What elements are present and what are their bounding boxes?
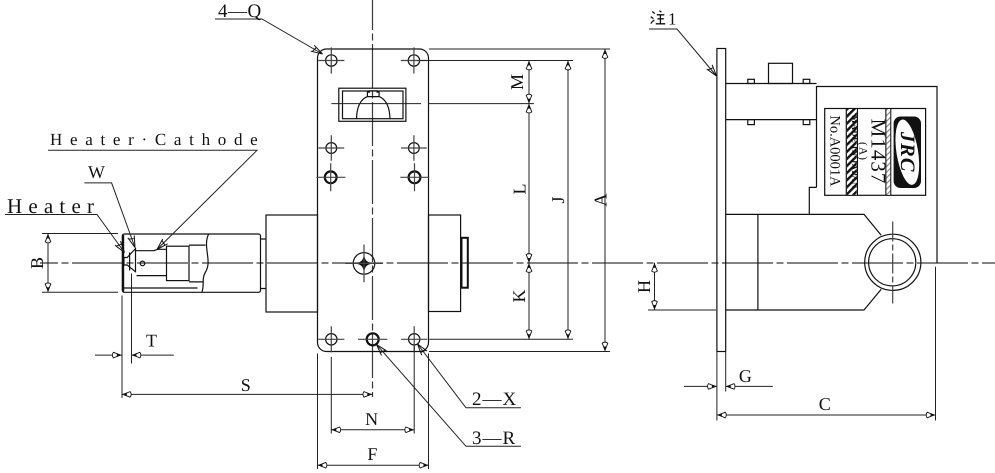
leader arrowheads	[311, 45, 324, 57]
antenna dome inner circle	[869, 239, 916, 286]
dim N ext and line	[331, 346, 414, 434]
inner electrode block	[167, 246, 190, 280]
corner hole top-left	[326, 55, 337, 66]
right flange	[429, 215, 461, 312]
callout labels with leaders	[5, 19, 717, 446]
svg-text:A: A	[591, 194, 611, 207]
dim A line	[604, 49, 606, 352]
dim S line	[122, 393, 372, 395]
mid hole row2 right (bold)	[409, 171, 421, 183]
leader Heater	[5, 215, 125, 253]
dim G ext and lines	[684, 352, 773, 392]
svg-text:Heater·Cathode: Heater·Cathode	[50, 130, 265, 149]
heater dot	[140, 261, 145, 266]
leader 2-X	[418, 344, 522, 408]
svg-text:C: C	[819, 394, 831, 414]
window outer frame	[339, 88, 406, 121]
svg-text:S: S	[241, 375, 251, 395]
arrows dim J	[565, 61, 571, 70]
corner hole bottom-right	[409, 334, 420, 345]
corner hole top-right	[408, 55, 419, 66]
svg-text:JRC: JRC	[896, 131, 918, 173]
window inner frame	[343, 91, 404, 119]
svg-text:G: G	[739, 366, 752, 386]
svg-text:F: F	[367, 444, 377, 464]
leader 4-Q	[215, 19, 323, 54]
svg-text:2—X: 2—X	[472, 389, 517, 410]
svg-text:T: T	[146, 331, 157, 351]
arrows dim K	[526, 263, 532, 272]
dim H ext and line	[648, 263, 716, 310]
yoke tab mid-left	[748, 120, 755, 125]
svg-text:W: W	[88, 162, 105, 182]
arrows dim G	[708, 384, 717, 390]
svg-text:N: N	[365, 409, 378, 429]
horizontal centerline (main axis)	[40, 262, 995, 264]
ext lines right of plate	[331, 49, 610, 352]
arrows dim N	[331, 427, 340, 433]
center screw circle	[353, 253, 375, 275]
corner hole bottom-left	[326, 334, 337, 345]
arrows dim S	[122, 392, 131, 398]
lower cylinder divider	[757, 214, 759, 310]
mounting plate (front view)	[318, 49, 429, 352]
arrows dim H	[652, 263, 658, 272]
dim L line	[528, 104, 530, 263]
stem cylinder	[122, 234, 260, 292]
body block outline	[809, 87, 937, 263]
yoke inner line	[726, 119, 817, 121]
arrows dim C	[717, 412, 726, 418]
yoke tab top-left	[748, 79, 755, 83]
arrows dim A	[602, 49, 608, 58]
dim F ext and line	[318, 354, 429, 470]
arrows dim M	[526, 61, 532, 70]
JRC logo	[891, 117, 923, 189]
cathode cap line	[129, 253, 131, 271]
svg-text:M: M	[507, 74, 527, 90]
mid hole row1 right	[409, 143, 420, 154]
stem left cap edge (thick)	[122, 235, 124, 292]
arrows dim B	[45, 234, 51, 243]
bottom center hole (bold)	[367, 333, 379, 345]
nameplate label border	[825, 109, 926, 196]
left flange	[266, 215, 318, 312]
stem inner sleeve bottom line	[123, 287, 197, 289]
arrows dim T	[112, 352, 121, 358]
inner electrode block 2	[189, 245, 206, 282]
cathode cone	[124, 248, 136, 273]
side plate (edge-on)	[717, 49, 726, 352]
antenna plate	[462, 238, 468, 288]
center screw crosshair	[345, 245, 383, 283]
leader Heater-Cathode	[48, 150, 257, 249]
yoke tab top-right	[803, 79, 810, 83]
svg-text:3—R: 3—R	[472, 428, 516, 449]
dim M line	[528, 61, 530, 104]
arrows dim F	[318, 462, 327, 468]
leader W	[84, 183, 135, 248]
lower cylinder	[726, 214, 882, 310]
dome (cathode insulator)	[357, 97, 391, 119]
yoke tab mid-right	[803, 120, 810, 125]
svg-text:(A): (A)	[857, 142, 869, 161]
leader 3-R	[377, 345, 522, 447]
dim J line	[567, 61, 569, 340]
vertical centerline of plate	[372, 0, 374, 397]
svg-text:H: H	[634, 280, 654, 293]
svg-text:J: J	[548, 196, 568, 203]
svg-text:M1437: M1437	[867, 119, 891, 185]
yoke top edge	[726, 83, 817, 85]
dome nipple	[367, 91, 379, 97]
svg-text:No.A0001A: No.A0001A	[827, 115, 843, 187]
dim B ext and line	[42, 234, 118, 293]
mid hole row1 left	[326, 143, 337, 154]
dimension letters	[27, 74, 831, 464]
svg-text:4—Q: 4—Q	[218, 1, 262, 22]
antenna dome vertical centerline	[892, 222, 894, 304]
hatched band MADE IN JAPAN	[847, 109, 890, 195]
top terminal box	[769, 63, 793, 83]
callout texts	[218, 1, 517, 449]
nameplate column lines	[846, 109, 890, 196]
heater support	[136, 249, 167, 275]
svg-text:Heater: Heater	[7, 194, 100, 218]
svg-text:L: L	[510, 184, 530, 195]
leader note1	[649, 29, 717, 76]
arrows dim L	[526, 104, 532, 113]
stem break wavy line	[202, 234, 209, 292]
center screw phillips cross	[357, 256, 372, 270]
note1 kanji (drawn strokes) + 1	[651, 11, 665, 24]
antenna dome outer circle	[865, 234, 921, 290]
dim C ext and line	[717, 267, 936, 421]
mid hole row2 left (bold)	[325, 171, 337, 183]
dim T ext and line	[95, 274, 174, 399]
svg-text:K: K	[509, 290, 529, 303]
svg-text:1: 1	[668, 10, 677, 29]
neck between stem and flange	[261, 239, 267, 289]
dim K line	[528, 263, 530, 339]
svg-text:B: B	[27, 257, 47, 269]
